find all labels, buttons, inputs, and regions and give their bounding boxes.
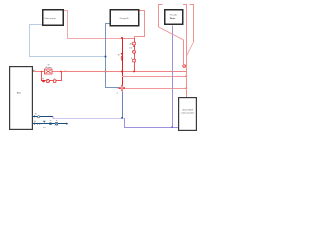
wire purple return line xyxy=(53,117,179,128)
arrow A1 on riser xyxy=(121,58,124,61)
svg-text:communication: communication xyxy=(181,112,194,115)
svg-text:Werte: Werte xyxy=(170,17,176,20)
meter M2 circle on branch xyxy=(133,50,136,53)
node junction J2 xyxy=(105,56,107,58)
valve V1 hourglass on riser xyxy=(121,53,124,55)
meter M1 circle on bypass xyxy=(46,79,49,82)
node junction bypass right xyxy=(60,71,62,73)
antenna far right lead xyxy=(190,5,194,43)
valve V4 circle on lower return xyxy=(55,122,58,125)
switch S1 small box on bypass xyxy=(53,80,56,83)
wire red side branch x134 xyxy=(134,38,136,72)
pump P1 circle with cross xyxy=(121,87,123,89)
antenna bracket right of box C xyxy=(183,5,187,98)
lamp L1 filled dot on bypass xyxy=(42,80,45,83)
sensor T1 tee symbol xyxy=(43,120,46,122)
svg-text:A5: A5 xyxy=(130,43,132,46)
svg-text:W: W xyxy=(65,70,67,72)
node junction J6 xyxy=(185,87,187,89)
box B programmer xyxy=(110,9,140,27)
svg-text:D1: D1 xyxy=(130,47,132,49)
wire red pump line y88 xyxy=(118,88,187,90)
valve V2 circle on upper return xyxy=(38,116,40,118)
box A controller xyxy=(42,9,64,26)
svg-text:+5: +5 xyxy=(116,92,118,94)
tick on lower return xyxy=(34,123,36,125)
svg-text:Wspare: Wspare xyxy=(45,67,51,69)
wire blue pump drop xyxy=(122,92,124,119)
node junction J5 xyxy=(133,71,135,73)
svg-text:Sweet Wolff: Sweet Wolff xyxy=(182,109,193,112)
box D boiler xyxy=(9,66,33,130)
junction square on lower return xyxy=(49,123,51,125)
wire red riser x122 xyxy=(122,38,124,85)
fuse F1 box with X xyxy=(45,69,53,74)
box E thermostat xyxy=(178,97,197,131)
tick on upper return xyxy=(34,115,36,117)
wire navy return line lower xyxy=(33,123,67,125)
wire red bypass loop xyxy=(42,72,62,81)
node junction J3 xyxy=(105,71,107,73)
svg-text:W: W xyxy=(42,78,44,80)
wire red lower tie line y76 xyxy=(122,76,187,78)
arrow end of lower return xyxy=(66,123,68,125)
wire blue from box B left down xyxy=(106,24,120,88)
node dot on branch xyxy=(133,45,135,47)
lamp L2 flower symbol xyxy=(183,65,186,68)
box C receiver xyxy=(164,9,184,25)
node junction J4 xyxy=(121,71,123,73)
node junction J1 xyxy=(121,37,123,39)
wire pink bus continuation to programmer branch xyxy=(122,11,145,39)
wire pink flow from box A top-right down to bus xyxy=(64,11,122,39)
valve V3 bowtie on lower return xyxy=(37,123,39,125)
relay box on branch xyxy=(133,42,136,45)
svg-text:Grospelli: Grospelli xyxy=(120,17,129,20)
wire purple drop from box C xyxy=(172,25,174,127)
svg-text:Founder: Founder xyxy=(170,14,178,16)
antenna bracket left of box C xyxy=(159,5,163,28)
svg-text:W: W xyxy=(118,54,120,56)
wire navy return line upper xyxy=(33,116,53,118)
wire red main supply line xyxy=(33,71,187,73)
node junction J7 xyxy=(121,117,123,119)
svg-text:Floor pump: Floor pump xyxy=(45,17,57,20)
node junction bypass left xyxy=(41,71,43,73)
node junction J10 xyxy=(185,75,187,77)
switch S2 small box on branch xyxy=(133,59,136,62)
wire light-blue from box A left xyxy=(30,25,106,57)
node junction J8 xyxy=(171,126,173,128)
